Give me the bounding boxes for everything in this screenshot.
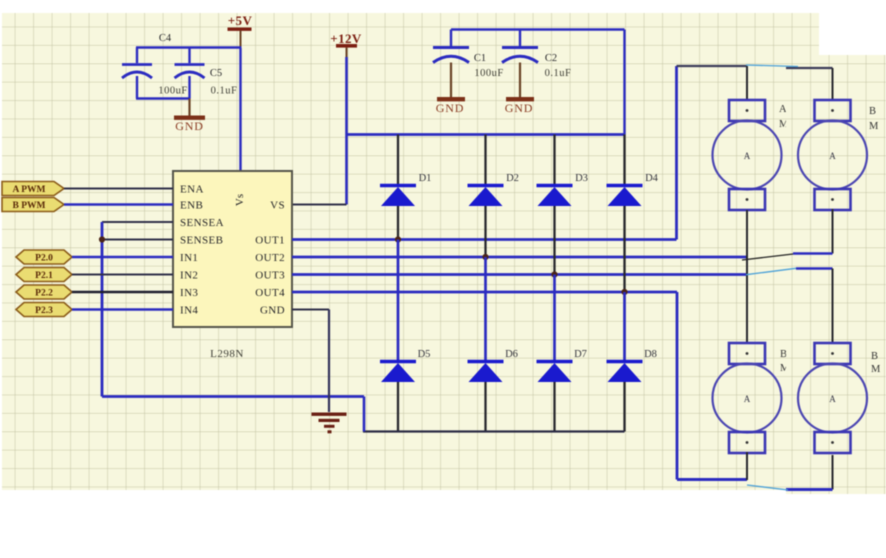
- svg-text:A PWM: A PWM: [13, 185, 46, 195]
- svg-text:P2.3: P2.3: [35, 306, 53, 316]
- svg-text:SENSEB: SENSEB: [180, 235, 223, 247]
- wire +12V vertical to VS: [345, 57, 348, 205]
- svg-text:A: A: [829, 394, 836, 404]
- node junction D2: [482, 254, 488, 260]
- svg-text:VS: VS: [270, 200, 285, 212]
- svg-text:IN2: IN2: [180, 270, 198, 282]
- ground GND below C1: [436, 63, 465, 116]
- wire +5V to U1 VSS pin: [239, 48, 241, 171]
- wire P2.2 to IN3: [72, 291, 173, 294]
- port P2.0: [16, 250, 72, 264]
- svg-text:D5: D5: [418, 349, 431, 360]
- motor B2 label: [871, 351, 881, 375]
- wire C4/C5 bottom rail: [136, 97, 191, 99]
- svg-text:B: B: [869, 106, 876, 117]
- svg-text:0.1uF: 0.1uF: [545, 68, 572, 79]
- svg-text:OUT4: OUT4: [255, 287, 285, 299]
- motor B2 (bottom): [798, 343, 867, 453]
- diode D5: [380, 240, 430, 432]
- svg-text:M: M: [871, 364, 881, 375]
- seam line OUT2 (dark): [742, 254, 793, 260]
- wire OUT4 row: [292, 291, 677, 294]
- svg-text:A: A: [744, 151, 751, 161]
- svg-text:OUT1: OUT1: [255, 235, 285, 247]
- svg-text:OUT3: OUT3: [255, 270, 285, 282]
- second screenshot sheet background: [786, 55, 886, 494]
- svg-text:+12V: +12V: [330, 31, 362, 46]
- wire OUT1 row: [292, 238, 677, 241]
- port P2.1: [16, 268, 72, 282]
- svg-text:C5: C5: [210, 68, 222, 79]
- U1 left pin names: [180, 184, 224, 317]
- seam line top (light blue): [746, 65, 798, 67]
- port P2.2: [16, 285, 72, 299]
- svg-text:M: M: [869, 121, 879, 132]
- power +12V symbol: [330, 31, 362, 57]
- wire bus riser: [363, 397, 366, 432]
- wire VS pin to +12V: [292, 204, 347, 206]
- capacitor C1: [433, 48, 504, 80]
- svg-text:100uF: 100uF: [474, 68, 503, 79]
- motor B1 (top): [798, 100, 867, 210]
- wire SENSEA: [102, 221, 173, 223]
- svg-text:D3: D3: [575, 173, 588, 184]
- ground GND below C5: [174, 99, 205, 134]
- wire motor B1 bottom pin: [832, 209, 834, 254]
- wire OUT4 riser: [676, 292, 679, 480]
- svg-text:SENSEA: SENSEA: [180, 217, 224, 229]
- svg-text:B: B: [780, 349, 787, 360]
- svg-text:A: A: [779, 104, 787, 115]
- svg-text:C2: C2: [545, 53, 557, 64]
- wire OUT3 row: [292, 273, 747, 276]
- svg-text:+5V: +5V: [228, 13, 253, 28]
- svg-text:L298N: L298N: [210, 348, 244, 360]
- wire C4 top drop: [136, 48, 138, 64]
- wire C1/C2 top rail: [451, 28, 625, 30]
- wire +12V diode bus: [347, 133, 625, 136]
- wire motor A2 bottom loop: [677, 452, 747, 480]
- wire GND pin: [292, 309, 329, 311]
- port A PWM: [2, 182, 64, 196]
- diode D7: [537, 275, 587, 432]
- wire P2.1 to IN2: [72, 274, 173, 276]
- wire C5 top drop: [188, 48, 190, 64]
- svg-text:IN1: IN1: [180, 252, 198, 264]
- svg-text:B: B: [871, 351, 878, 362]
- svg-text:IN3: IN3: [180, 287, 198, 299]
- wire OUT1 top link: [677, 65, 748, 67]
- svg-text:D7: D7: [574, 349, 587, 360]
- svg-text:B PWM: B PWM: [13, 201, 46, 211]
- diode D2: [468, 135, 519, 258]
- power +5V symbol: [228, 13, 253, 48]
- capacitor C5: [175, 65, 238, 97]
- svg-text:P2.0: P2.0: [35, 254, 53, 264]
- wire diode bottom bus: [363, 430, 625, 432]
- wire top rail drop to bus: [623, 30, 625, 135]
- wire P2.3 to IN4: [72, 308, 173, 310]
- motor A1 (top): [713, 100, 782, 210]
- seam line bottom (light blue): [747, 485, 788, 490]
- seam line OUT3 (light blue): [746, 268, 796, 274]
- wire B PWM to ENB: [64, 203, 173, 206]
- diode D6: [468, 257, 518, 432]
- svg-text:ENA: ENA: [180, 184, 204, 196]
- capacitor C2: [502, 48, 571, 80]
- port P2.3: [16, 303, 72, 317]
- U1 pin VSS vertical label: [234, 194, 246, 206]
- svg-text:100uF: 100uF: [158, 86, 187, 97]
- svg-text:ENB: ENB: [180, 200, 203, 212]
- svg-text:GND: GND: [260, 305, 285, 317]
- wire motor A1 top pin: [746, 66, 748, 100]
- node junction D3: [551, 271, 557, 277]
- diode D1: [380, 135, 431, 240]
- wire OUT2 row: [292, 256, 747, 259]
- diode D4: [607, 135, 659, 293]
- main schematic sheet background: [2, 13, 819, 490]
- node junction D1: [395, 236, 401, 242]
- svg-text:OUT2: OUT2: [255, 252, 285, 264]
- capacitor C4: [122, 33, 188, 97]
- diode D8: [607, 292, 657, 432]
- wire P2.0 to IN1: [72, 256, 173, 258]
- svg-text:D1: D1: [419, 173, 432, 184]
- wire C2 top lead: [519, 30, 521, 47]
- svg-text:IN4: IN4: [180, 305, 198, 317]
- svg-text:Vs: Vs: [234, 194, 246, 206]
- wire motor B1 top link: [786, 68, 833, 100]
- svg-text:D6: D6: [505, 349, 518, 360]
- svg-text:D2: D2: [506, 173, 519, 184]
- node junction D4: [621, 289, 627, 295]
- wire motor B2 bottom loop: [786, 455, 833, 490]
- svg-text:A: A: [829, 151, 836, 161]
- svg-text:D4: D4: [645, 173, 659, 184]
- wire C5 bottom lead: [188, 76, 190, 99]
- wire SENSEB: [102, 239, 173, 241]
- wire C4 bottom lead: [136, 76, 138, 99]
- wire sense to bus: [102, 395, 364, 398]
- motor A2 (bottom): [713, 343, 782, 453]
- port B PWM: [2, 198, 64, 212]
- node junction SENSEB: [99, 236, 105, 242]
- svg-text:P2.2: P2.2: [35, 289, 53, 299]
- motor B1 label: [869, 106, 879, 132]
- U1 right pin names: [255, 200, 285, 317]
- svg-text:GND: GND: [175, 119, 203, 133]
- wire overlay OUT3 row: [793, 252, 833, 255]
- motor A2 label: [780, 349, 790, 374]
- wire overlay OUT4 row: [796, 269, 833, 344]
- svg-text:P2.1: P2.1: [35, 271, 53, 281]
- ground GND below C2: [505, 63, 534, 116]
- wire GND drop: [328, 310, 330, 413]
- diode D3: [537, 135, 588, 275]
- motor A1 label: [779, 104, 789, 130]
- svg-text:D8: D8: [644, 349, 657, 360]
- wire motor A1 bottom to motor A2 top: [746, 210, 748, 343]
- wire C4/C5 top rail: [136, 46, 242, 48]
- svg-text:GND: GND: [505, 101, 533, 115]
- wire A PWM to ENA: [64, 188, 173, 190]
- svg-text:C4: C4: [159, 33, 172, 44]
- svg-text:GND: GND: [436, 101, 464, 115]
- U1 designator L298N: [210, 348, 244, 360]
- svg-text:0.1uF: 0.1uF: [211, 86, 238, 97]
- ground symbol power gnd: [312, 413, 347, 434]
- wire C1 top lead: [450, 30, 452, 47]
- wire OUT1 riser: [675, 66, 678, 240]
- op-amp U1 L298N body: [173, 171, 292, 327]
- svg-text:A: A: [744, 394, 751, 404]
- svg-text:C1: C1: [474, 53, 486, 64]
- wire sense vertical: [101, 222, 104, 397]
